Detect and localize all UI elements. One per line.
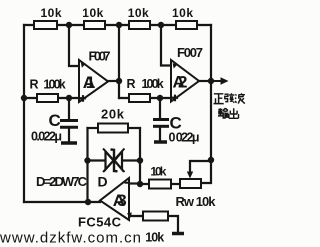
svg-text:R: R [30,78,39,92]
diode pair D right triangle [115,152,123,170]
char bo [235,93,245,103]
op-amp A2 non-inverting input mark [172,95,178,102]
node A3 output [85,199,91,205]
node R1/C1 [66,95,72,101]
diode pair shared cathode bar with zener hooks [111,150,118,172]
wire node to 10k R5 [140,183,149,185]
wire 20k left lead [88,127,99,129]
wire R6 to ground [168,216,178,232]
wire A3 top input [129,182,140,184]
ground bar under R6 [172,232,184,236]
op-amp A1 triangle [79,60,108,102]
svg-text:C: C [49,111,61,130]
svg-text:20k: 20k [101,107,125,122]
potentiometer Rw wiper arrowhead [187,172,193,179]
node top3 [158,22,164,28]
diode X diagonal stroke 1 [103,149,125,173]
resistor R 10k #3 (top) [129,21,150,29]
char shu [218,108,228,118]
svg-text:A3: A3 [113,191,127,210]
resistor 10k #5 (A3 feedback) [149,180,171,189]
output arrow [211,77,229,84]
svg-text:A2: A2 [173,73,188,92]
svg-text:100k: 100k [141,77,163,91]
svg-text:Rw 10k: Rw 10k [176,194,217,209]
svg-text:A1: A1 [83,73,96,92]
op-amp A3 top input mark [125,182,129,184]
svg-text:FC54C: FC54C [78,215,122,230]
wire 20k right lead [128,127,140,129]
wire diode row [88,159,141,161]
node Rw tap [208,157,214,163]
node A3 input [137,181,143,187]
svg-text:10k: 10k [82,6,103,20]
wire right AGC branch vertical [139,128,141,184]
wire A1 to R2 row [119,97,170,99]
op-amp A3 bottom input mark [127,212,132,217]
wire C2 top lead [159,98,161,118]
wire C1 bottom lead [68,129,70,142]
node diode left [84,157,90,163]
svg-text:0 022μ: 0 022μ [169,131,200,145]
capacitor C2 plates [153,120,169,127]
node diode right [137,157,143,163]
wire A2 output to node [199,80,211,82]
wire output node down to Rw right terminal [201,160,211,183]
node top1 [66,22,72,28]
wire feedback node3 to A2 inverting input [161,25,171,66]
resistor R 100k #1 [37,94,58,102]
svg-text:R: R [127,77,136,91]
wire output node to Rw wiper [190,161,211,172]
wire feedback node1 to A1 inverting input [69,25,79,66]
svg-text:F007: F007 [89,49,111,64]
wire A3 bottom input to R6 [129,215,143,217]
svg-text:D: D [98,174,108,190]
wire top rail [24,24,211,26]
wire left AGC branch vertical [86,128,88,202]
svg-text:F007: F007 [177,45,203,60]
svg-text:10k: 10k [150,165,166,179]
diode pair D (back-to-back zeners) left triangle [106,152,114,170]
char zheng [214,94,224,104]
node A2 output [208,78,214,84]
wire R1 100k row [24,97,79,99]
wire A1 output to node [108,80,119,82]
wire left vertical rail [23,25,25,202]
op-amp A1 non-inverting input mark [80,95,86,102]
svg-text:10k: 10k [41,6,62,20]
op-amp A2 triangle [171,60,199,102]
node A1 output [116,78,122,84]
node top2 [116,22,122,28]
wire top-right corner down to output node and Rw [210,25,212,160]
svg-text:10k: 10k [172,6,193,20]
wire A1 output vertical to top node2 and down [118,25,120,98]
label output text line2: shu chu (output) drawn as strokes [218,108,239,118]
wire C2 bottom lead [159,128,161,140]
svg-text:D=2DW7C: D=2DW7C [36,174,88,189]
potentiometer Rw 10k body [180,179,201,188]
junction node dots [21,22,214,205]
wire bottom-left horizontal [24,201,100,203]
op-amp A2 inverting input mark [173,63,178,68]
resistor R 100k #2 [129,94,150,102]
op-amp A1 inverting input mark [81,62,86,67]
svg-text:100k: 100k [43,78,65,92]
ground bar under C2 [154,140,167,144]
op-amp A3 triangle (points left) [100,178,129,220]
label output text line1: zheng xian bo (sine wave) drawn as strokes [214,93,245,103]
resistor R 10k #4 (top) [176,21,197,29]
char xian [225,93,235,103]
resistor R 10k #1 (top) [34,21,57,29]
wire R5 to Rw [171,183,180,185]
char chu [229,108,239,118]
svg-text:10k: 10k [128,6,149,20]
diode X diagonal stroke 2 [103,149,125,173]
capacitor C1 plates [60,121,78,128]
ground bar under C1 [61,141,77,145]
resistor 20k [98,124,128,133]
svg-text:10k: 10k [145,231,164,245]
svg-text:www.dzkfw.com.cn: www.dzkfw.com.cn [0,230,141,247]
node R2/C2 [157,95,163,101]
svg-text:0.022μ: 0.022μ [31,130,62,144]
node left R1 [21,95,27,101]
resistor 10k #6 (A3 ground leg) [143,212,168,221]
resistor R 10k #2 (top) [84,21,105,29]
wire C1 top lead [68,98,70,119]
